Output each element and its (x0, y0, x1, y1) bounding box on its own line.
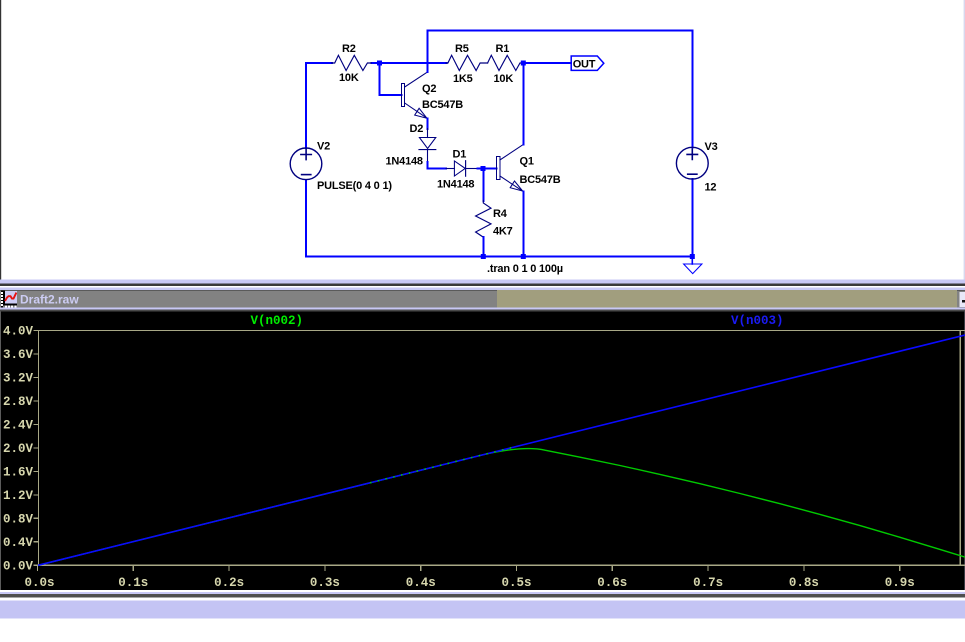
transistor Q1 (497, 145, 561, 192)
plot border (39, 331, 965, 566)
svg-text:1N4148: 1N4148 (386, 156, 423, 168)
node junction R4/bottom rail (481, 254, 486, 259)
schematic window left border (0, 0, 1, 280)
wire: bottom rail (306, 256, 692, 258)
svg-text:BC547B: BC547B (520, 174, 561, 186)
svg-text:V(n003): V(n003) (731, 314, 784, 328)
wire: D2 to D1 (428, 162, 447, 169)
node junction V3/bottom rail (690, 254, 695, 259)
wire: left rail vertical (305, 63, 307, 257)
svg-text:Q2: Q2 (422, 83, 436, 95)
svg-text:V2: V2 (317, 141, 330, 153)
voltage source V2 (290, 141, 392, 193)
svg-text:0.8V: 0.8V (3, 512, 34, 526)
svg-text:0.3s: 0.3s (310, 576, 340, 590)
svg-text:R2: R2 (342, 43, 356, 55)
x axis ticks (38, 565, 900, 571)
svg-text:0.4V: 0.4V (3, 536, 34, 550)
wire: junction to OUT flag (523, 62, 571, 64)
svg-text:3.6V: 3.6V (3, 348, 34, 362)
schematic background (0, 0, 965, 280)
svg-text:12: 12 (705, 182, 717, 194)
svg-text:0.5s: 0.5s (501, 576, 531, 590)
svg-text:0.2s: 0.2s (214, 576, 244, 590)
y axis ticks (34, 331, 39, 566)
plot window black background (0, 312, 965, 591)
wire: junction down to Q2 base (380, 63, 402, 95)
svg-text:0.4s: 0.4s (406, 576, 436, 590)
svg-text:R5: R5 (455, 43, 469, 55)
svg-text:1.2V: 1.2V (3, 489, 34, 503)
resistor R2 (332, 43, 372, 84)
wire: R4 bottom lead (482, 237, 484, 257)
voltage source V3 (676, 141, 717, 194)
transistor Q2 (402, 72, 464, 119)
svg-text:10K: 10K (339, 72, 359, 84)
trace V(n003) blue (38, 335, 965, 565)
svg-text:BC547B: BC547B (422, 99, 463, 111)
svg-text:Draft2.raw: Draft2.raw (20, 293, 79, 307)
node junction at R2/base (377, 61, 382, 66)
spice directive .tran (487, 263, 563, 275)
resistor R4 (476, 201, 513, 238)
svg-text:0.8s: 0.8s (789, 576, 819, 590)
svg-text:0.6s: 0.6s (597, 576, 627, 590)
wire: Q2 emitter down to D2 (427, 119, 429, 130)
svg-text:2.4V: 2.4V (3, 418, 34, 432)
svg-text:0.7s: 0.7s (693, 576, 723, 590)
svg-text:PULSE(0 4 0 1): PULSE(0 4 0 1) (317, 180, 392, 192)
svg-text:2.8V: 2.8V (3, 395, 34, 409)
svg-text:0.0V: 0.0V (3, 559, 34, 573)
svg-text:D1: D1 (453, 149, 467, 161)
svg-text:0.9s: 0.9s (885, 576, 915, 590)
resistor R5 (446, 43, 488, 85)
svg-text:4K7: 4K7 (493, 226, 513, 238)
svg-text:0.1s: 0.1s (118, 576, 148, 590)
node junction at D1/R4/base (481, 166, 486, 171)
svg-text:0.0s: 0.0s (24, 576, 54, 590)
node junction Q1 emitter/bottom rail (521, 254, 526, 259)
svg-text:1K5: 1K5 (453, 73, 473, 85)
diode D1 (437, 149, 478, 191)
wire: V3 to bottom rail (691, 179, 693, 256)
svg-text:1.6V: 1.6V (3, 465, 34, 479)
svg-text:Q1: Q1 (520, 156, 534, 168)
svg-text:1N4148: 1N4148 (437, 179, 474, 191)
ground (684, 259, 702, 274)
svg-text:V(n002): V(n002) (251, 314, 304, 328)
wire: Q1 emitter down to bottom rail (522, 192, 524, 257)
wire: R2 row left (306, 62, 447, 64)
svg-text:OUT: OUT (573, 58, 596, 70)
svg-text:R1: R1 (496, 43, 510, 55)
svg-text:D2: D2 (410, 123, 424, 135)
node junction at R1/OUT (521, 61, 526, 66)
wire: R4 top lead (482, 169, 484, 201)
wire: top rail (428, 30, 692, 32)
resistor R1 (488, 43, 522, 85)
svg-text:.tran 0 1 0 100µ: .tran 0 1 0 100µ (487, 263, 563, 275)
wire: Q2 collector up (427, 31, 429, 73)
svg-text:R4: R4 (493, 208, 508, 220)
trace V(n002) green (38, 449, 965, 566)
svg-text:V3: V3 (705, 141, 718, 153)
svg-text:3.2V: 3.2V (3, 371, 34, 385)
wire: D1 to Q1 base (478, 168, 497, 170)
node OUT flag (571, 56, 604, 70)
schematic window right edge strip (964, 0, 965, 280)
wire: top rail down to V3 (691, 31, 693, 148)
svg-text:2.0V: 2.0V (3, 442, 34, 456)
trace V(n002) dotted overlap (370, 446, 517, 483)
y axis labels (3, 325, 34, 574)
wire: Q1 collector up to R1 junction (522, 63, 524, 145)
svg-text:10K: 10K (494, 73, 514, 85)
diode D2 (386, 123, 436, 168)
title bar icon (1, 291, 17, 308)
svg-text:4.0V: 4.0V (3, 325, 34, 339)
x axis labels (24, 576, 914, 590)
